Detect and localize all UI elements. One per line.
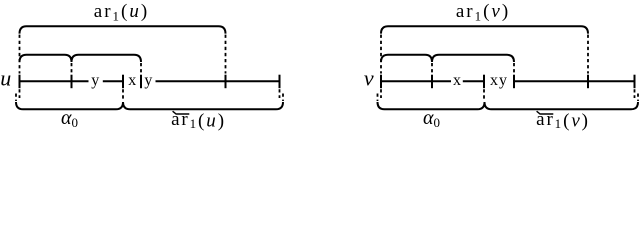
dashed drop below tick1 (u): [19, 89, 21, 98]
main line segment 3 (u): [156, 80, 280, 82]
svg-text:y: y: [144, 72, 152, 89]
svg-text:x: x: [128, 72, 136, 89]
dashed drop mid bracket2 right end (v): [513, 63, 515, 74]
tick 1 (u): [19, 75, 21, 89]
main line segment 2 (v): [463, 80, 484, 82]
svg-text:u: u: [0, 65, 11, 90]
main line segment 3 (v): [514, 80, 635, 82]
dashed stub above bottom bracket A left end (v): [377, 94, 379, 102]
tick 3 (v): [483, 75, 485, 89]
top brace ar1(v): [381, 26, 588, 33]
dashed stub above bottom bracket B right end (u): [282, 94, 284, 102]
svg-text:v: v: [364, 65, 374, 90]
dashed drop mid bracket2 right end: [140, 63, 142, 74]
svg-text:xy: xy: [490, 72, 508, 89]
tick 4 (v): [513, 75, 515, 89]
arrow accent over ar (u): [173, 111, 190, 114]
tick 2 (v): [431, 75, 433, 89]
dashed drop mid junction: [71, 63, 73, 74]
tick 3 (u): [122, 75, 124, 89]
dashed drop below tick3 to cusp (v): [483, 89, 485, 100]
bottom bracket B ar-hat (v): [485, 102, 639, 109]
dashed drop from top brace left end: [19, 35, 21, 74]
dashed drop below tick6 (u): [279, 89, 281, 98]
svg-text:ar1(u): ar1(u): [171, 109, 226, 132]
mid bracket 1 (v): [381, 55, 432, 62]
tick 6 (v): [634, 75, 636, 89]
bottom bracket B ar-hat (u): [123, 102, 283, 109]
dashed drop from top brace left end (v): [380, 35, 382, 74]
main line segment 1 (u): [20, 80, 89, 82]
dashed drop from top brace right end: [225, 35, 227, 74]
tick 6 (u): [279, 75, 281, 89]
main line segment 2 (u): [103, 80, 123, 82]
tick 5 (v): [587, 75, 589, 89]
top brace ar1(u): [20, 26, 226, 33]
dashed stub above bottom bracket A left end (u): [15, 94, 17, 102]
svg-text:ar1(v): ar1(v): [536, 109, 590, 132]
mid bracket 2 (u): [72, 55, 142, 62]
dashed stub above bottom bracket B right end (v): [637, 94, 639, 102]
svg-text:y: y: [91, 72, 99, 89]
svg-text:x: x: [453, 72, 461, 89]
bottom bracket A alpha0 (u): [16, 102, 123, 109]
svg-text:ar1(v): ar1(v): [456, 1, 510, 23]
mid bracket 1 (u): [20, 55, 72, 62]
dashed drop below tick6 (v): [634, 89, 636, 98]
tick 4 (u): [140, 75, 142, 89]
mid bracket 2 (v): [432, 55, 514, 62]
tick 5 (u): [225, 75, 227, 89]
bottom bracket A alpha0 (v): [378, 102, 485, 109]
dashed drop mid junction (v): [431, 63, 433, 74]
dashed drop below tick3 to cusp (u): [122, 89, 124, 100]
dashed drop below tick1 (v): [380, 89, 382, 98]
dashed drop from top brace right end (v): [587, 35, 589, 74]
arrow accent over ar (v): [537, 111, 554, 114]
tick 1 (v): [380, 75, 382, 89]
tick 2 (u): [71, 75, 73, 89]
main line segment 1 (v): [381, 80, 451, 82]
svg-text:ar1(u): ar1(u): [94, 1, 149, 23]
